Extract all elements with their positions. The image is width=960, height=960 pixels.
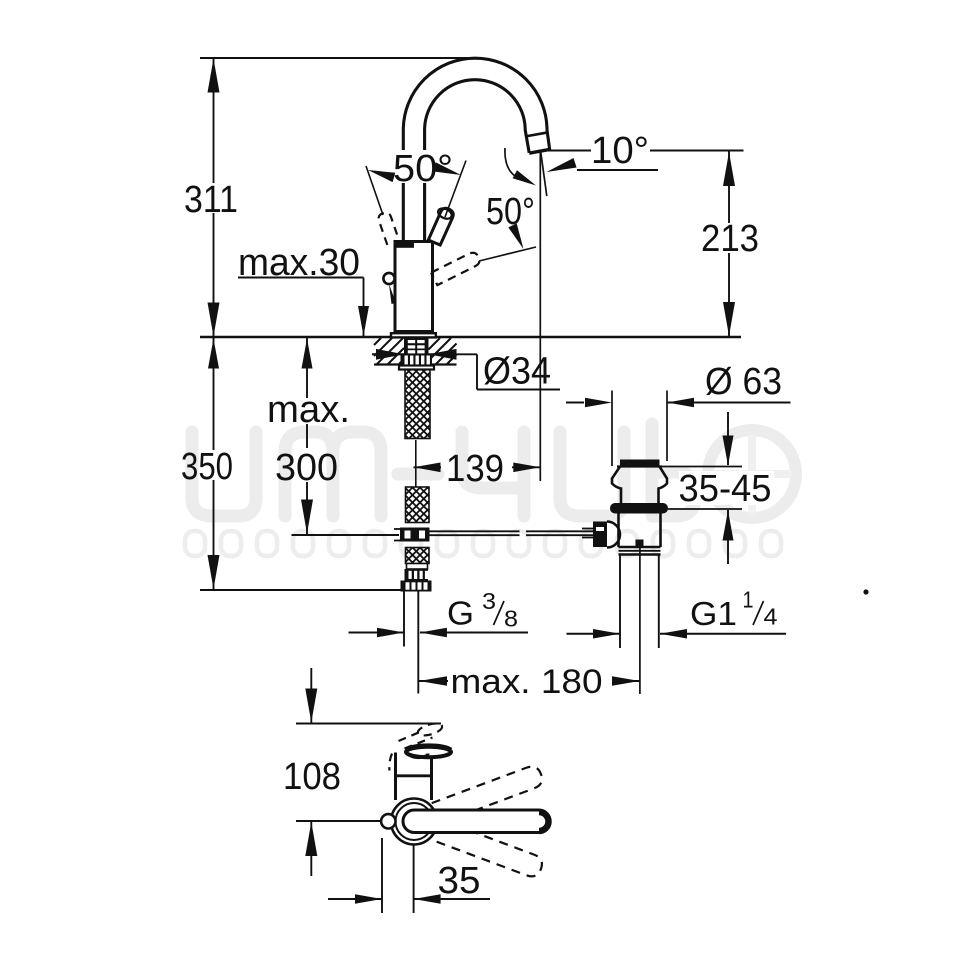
svg-text:10°: 10°: [591, 130, 649, 172]
svg-text:311: 311: [184, 179, 238, 221]
svg-text:35: 35: [438, 860, 481, 902]
svg-text:35-45: 35-45: [679, 468, 772, 510]
svg-text:139: 139: [446, 448, 504, 490]
svg-text:max.: max.: [267, 389, 350, 431]
svg-text:350: 350: [181, 446, 233, 488]
svg-text:1: 1: [743, 587, 754, 613]
svg-text:3: 3: [482, 588, 496, 614]
svg-text:max. 180: max. 180: [451, 663, 603, 701]
svg-text:G1: G1: [690, 595, 737, 632]
svg-text:108: 108: [283, 756, 341, 798]
svg-text:8: 8: [504, 606, 518, 632]
svg-text:G: G: [447, 595, 474, 632]
svg-text:213: 213: [701, 218, 759, 260]
svg-text:Ø 63: Ø 63: [705, 361, 782, 403]
svg-text:4: 4: [764, 604, 778, 630]
svg-text:300: 300: [275, 447, 338, 489]
